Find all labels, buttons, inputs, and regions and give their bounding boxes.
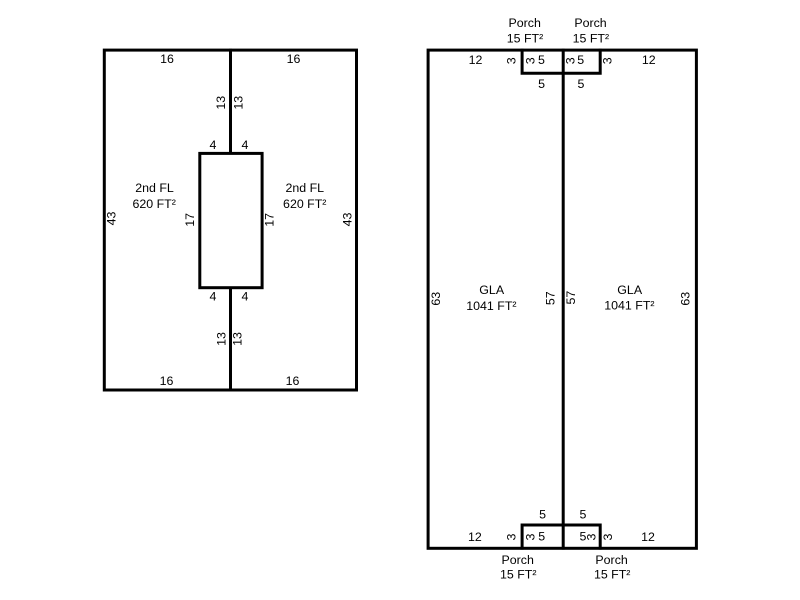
svg-text:3: 3 (584, 533, 598, 540)
svg-text:5: 5 (577, 77, 584, 91)
2nd floor center party wall lower segment (229, 288, 232, 392)
svg-text:57: 57 (543, 291, 557, 305)
2nd floor outer wall rectangle (104, 50, 356, 390)
svg-text:3: 3 (563, 57, 577, 64)
svg-text:15 FT²: 15 FT² (573, 32, 610, 46)
svg-text:620 FT²: 620 FT² (133, 197, 176, 211)
svg-text:16: 16 (286, 374, 300, 388)
svg-text:4: 4 (242, 290, 249, 304)
svg-text:620 FT²: 620 FT² (283, 197, 326, 211)
2nd floor center party wall upper segment (229, 49, 232, 154)
svg-text:3: 3 (600, 57, 614, 64)
svg-text:16: 16 (287, 52, 301, 66)
svg-text:2nd FL: 2nd FL (285, 181, 324, 195)
svg-text:4: 4 (210, 138, 217, 152)
GLA outer wall rectangle (428, 50, 696, 548)
svg-text:13: 13 (231, 96, 245, 110)
svg-text:15 FT²: 15 FT² (507, 32, 544, 46)
svg-text:13: 13 (214, 332, 228, 346)
svg-text:3: 3 (523, 533, 537, 540)
svg-text:1041 FT²: 1041 FT² (604, 299, 654, 313)
svg-text:15 FT²: 15 FT² (594, 568, 631, 582)
svg-text:5: 5 (538, 77, 545, 91)
svg-text:63: 63 (678, 292, 692, 306)
top porches outline (522, 49, 600, 73)
svg-text:3: 3 (504, 57, 518, 64)
GLA center party wall full height (562, 49, 565, 550)
svg-text:43: 43 (105, 212, 119, 226)
svg-text:17: 17 (183, 213, 197, 227)
svg-text:3: 3 (524, 57, 538, 64)
svg-text:5: 5 (538, 530, 545, 544)
svg-text:57: 57 (564, 291, 578, 305)
svg-text:12: 12 (642, 53, 656, 67)
svg-text:5: 5 (579, 508, 586, 522)
svg-text:4: 4 (210, 290, 217, 304)
svg-text:Porch: Porch (509, 16, 541, 30)
svg-text:3: 3 (601, 533, 615, 540)
svg-text:17: 17 (262, 213, 276, 227)
svg-text:15 FT²: 15 FT² (500, 568, 537, 582)
svg-text:5: 5 (538, 53, 545, 67)
svg-text:12: 12 (641, 530, 655, 544)
svg-text:5: 5 (577, 53, 584, 67)
svg-text:63: 63 (429, 292, 443, 306)
svg-text:16: 16 (160, 374, 174, 388)
svg-text:12: 12 (468, 530, 482, 544)
svg-text:13: 13 (214, 96, 228, 110)
svg-text:1041 FT²: 1041 FT² (466, 299, 516, 313)
svg-text:12: 12 (469, 53, 483, 67)
svg-text:GLA: GLA (479, 283, 505, 297)
svg-text:Porch: Porch (595, 553, 627, 567)
svg-text:13: 13 (230, 332, 244, 346)
svg-text:Porch: Porch (574, 16, 606, 30)
svg-text:GLA: GLA (617, 283, 643, 297)
svg-text:5: 5 (539, 508, 546, 522)
bottom porches outline (522, 525, 600, 550)
svg-text:16: 16 (160, 52, 174, 66)
svg-text:43: 43 (340, 213, 354, 227)
svg-text:3: 3 (504, 533, 518, 540)
2nd floor inner open rectangle (200, 153, 262, 287)
svg-text:Porch: Porch (502, 553, 534, 567)
svg-text:4: 4 (242, 138, 249, 152)
svg-text:2nd FL: 2nd FL (135, 181, 174, 195)
